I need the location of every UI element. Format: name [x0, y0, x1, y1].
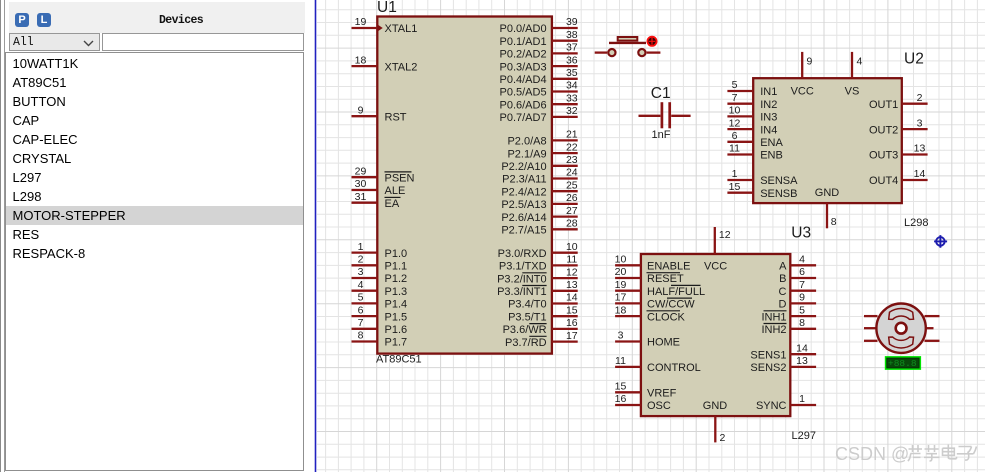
svg-text:14: 14 — [796, 342, 808, 354]
svg-text:13: 13 — [914, 143, 926, 155]
svg-text:1: 1 — [799, 393, 805, 405]
U2 pin 11 (ENB) — [727, 143, 782, 162]
svg-text:31: 31 — [355, 191, 367, 203]
svg-text:P2.7/A15: P2.7/A15 — [501, 225, 546, 237]
U3 pin 14 (SENS1) — [750, 342, 816, 361]
U2 value label L298 — [904, 217, 928, 229]
svg-text:1: 1 — [358, 241, 364, 253]
svg-text:30: 30 — [355, 178, 367, 190]
svg-text:18: 18 — [615, 304, 627, 316]
U1 pin 12 (P3.2/INT0) — [497, 266, 578, 285]
svg-text:P3.2/INT0: P3.2/INT0 — [497, 273, 547, 285]
svg-text:P0.3/AD3: P0.3/AD3 — [500, 61, 547, 73]
U1 pin 3 (P1.2) — [352, 266, 408, 285]
svg-text:PSEN: PSEN — [385, 172, 415, 184]
U1 pin 38 (P0.1/AD1) — [500, 29, 578, 48]
svg-text:GND: GND — [815, 187, 840, 199]
svg-text:P2.2/A10: P2.2/A10 — [501, 161, 546, 173]
U2 reference label — [904, 50, 924, 67]
svg-text:P1.6: P1.6 — [385, 324, 408, 336]
svg-text:26: 26 — [566, 192, 578, 204]
svg-text:P3.0/RXD: P3.0/RXD — [498, 248, 547, 260]
U1 pin 35 (P0.4/AD4) — [500, 67, 578, 86]
U1 pin 26 (P2.5/A13) — [501, 192, 577, 211]
svg-text:HOME: HOME — [647, 337, 680, 349]
U3 pin 12 (VCC) — [704, 227, 731, 273]
U1 pin 23 (P2.2/A10) — [501, 154, 577, 173]
push button: right contact — [638, 49, 645, 56]
svg-text:20: 20 — [615, 266, 627, 278]
svg-text:D: D — [779, 299, 787, 311]
svg-text:P0.5/AD5: P0.5/AD5 — [500, 87, 547, 99]
U1 pin 1 (P1.0) — [352, 241, 408, 260]
svg-text:P2.1/A9: P2.1/A9 — [507, 148, 546, 160]
U3 pin 6 (B) — [779, 266, 816, 285]
svg-text:ALE: ALE — [385, 185, 406, 197]
svg-text:P3.6/WR: P3.6/WR — [503, 324, 547, 336]
U3 pin 1 (SYNC) — [756, 393, 816, 412]
svg-text:12: 12 — [566, 266, 578, 278]
push button: left wire — [595, 51, 608, 53]
svg-text:HALF/FULL: HALF/FULL — [647, 286, 705, 298]
stepper motor: lead wires left — [864, 316, 878, 341]
svg-text:5: 5 — [358, 292, 364, 304]
svg-text:RST: RST — [385, 111, 407, 123]
svg-text:P3.5/T1: P3.5/T1 — [508, 311, 547, 323]
svg-text:SYNC: SYNC — [756, 400, 787, 412]
svg-text:7: 7 — [358, 317, 364, 329]
svg-text:37: 37 — [566, 42, 578, 54]
svg-text:XTAL2: XTAL2 — [385, 61, 418, 73]
svg-text:12: 12 — [719, 229, 731, 241]
svg-text:IN1: IN1 — [760, 86, 777, 98]
U2 pin 9 (VCC) — [791, 52, 814, 98]
svg-text:18: 18 — [355, 54, 367, 66]
svg-text:L297: L297 — [792, 430, 816, 442]
capacitor C1: left wire — [639, 115, 661, 117]
svg-text:VREF: VREF — [647, 388, 677, 400]
svg-text:38: 38 — [566, 29, 578, 41]
U1 pin 32 (P0.7/AD7) — [500, 105, 578, 124]
svg-text:P1.2: P1.2 — [385, 273, 408, 285]
U2 pin 14 (OUT4) — [869, 168, 928, 187]
svg-text:L298: L298 — [904, 217, 928, 229]
push button: actuator bar and cap — [609, 37, 646, 43]
stepper motor: body — [876, 304, 925, 353]
svg-text:9: 9 — [807, 56, 813, 68]
svg-text:P0.7/AD7: P0.7/AD7 — [500, 112, 547, 124]
svg-text:CONTROL: CONTROL — [647, 362, 701, 374]
U2 pin 13 (OUT3) — [869, 143, 928, 162]
svg-text:EA: EA — [385, 198, 400, 210]
svg-text:VCC: VCC — [704, 261, 727, 273]
svg-text:16: 16 — [615, 393, 627, 405]
svg-text:7: 7 — [732, 92, 738, 104]
svg-text:VS: VS — [845, 85, 860, 97]
svg-text:8: 8 — [831, 216, 837, 228]
svg-text:15: 15 — [566, 304, 578, 316]
motor angle display +88.8 — [886, 357, 920, 369]
svg-text:+88.8: +88.8 — [888, 358, 917, 369]
svg-text:CSDN @: CSDN @ — [835, 444, 909, 464]
svg-text:4: 4 — [358, 279, 364, 291]
U2 pin 1 (SENSA) — [727, 168, 798, 187]
U1 pin 29 (PSEN) — [352, 165, 415, 184]
U1 pin 16 (P3.6/WR) — [503, 317, 578, 336]
svg-text:17: 17 — [615, 292, 627, 304]
svg-text:P1.0: P1.0 — [385, 248, 408, 260]
svg-text:10: 10 — [615, 254, 627, 266]
U1 pin 25 (P2.4/A12) — [501, 179, 577, 198]
svg-text:4: 4 — [799, 254, 805, 266]
U2 pin 7 (IN2) — [727, 92, 777, 111]
watermark CSDN @芦苇电子 — [835, 444, 977, 464]
U1 pin 11 (P3.1/TXD) — [499, 254, 578, 273]
U1 pin 6 (P1.5) — [352, 304, 408, 323]
svg-text:P3.3/INT1: P3.3/INT1 — [497, 286, 547, 298]
svg-text:P1.7: P1.7 — [385, 337, 408, 349]
U2 pin 2 (OUT1) — [869, 92, 928, 111]
U1 pin 2 (P1.1) — [352, 254, 408, 273]
U3 pin 13 (SENS2) — [750, 355, 816, 374]
svg-text:CLOCK: CLOCK — [647, 311, 686, 323]
svg-text:22: 22 — [566, 141, 578, 153]
svg-text:P2.0/A8: P2.0/A8 — [507, 136, 546, 148]
svg-text:P2.3/A11: P2.3/A11 — [502, 174, 546, 186]
svg-text:C1: C1 — [651, 85, 671, 102]
svg-text:32: 32 — [566, 105, 578, 117]
U1 pin 36 (P0.3/AD3) — [500, 54, 578, 73]
svg-text:OUT2: OUT2 — [869, 124, 898, 136]
C1 reference label — [651, 85, 671, 102]
U1 pin 19 (XTAL1) — [352, 16, 418, 35]
svg-text:P3.7/RD: P3.7/RD — [505, 337, 547, 349]
U1 pin 18 (XTAL2) — [352, 54, 418, 73]
svg-text:13: 13 — [796, 355, 808, 367]
svg-text:15: 15 — [615, 381, 627, 393]
svg-text:36: 36 — [566, 54, 578, 66]
svg-text:GND: GND — [703, 400, 728, 412]
svg-text:11: 11 — [615, 355, 626, 367]
svg-text:P1.5: P1.5 — [385, 311, 408, 323]
U2 pin 4 (VS) — [845, 52, 863, 98]
svg-text:24: 24 — [566, 167, 578, 179]
U2 pin 6 (ENA) — [727, 130, 783, 149]
svg-text:5: 5 — [732, 79, 738, 91]
svg-text:A: A — [779, 261, 787, 273]
U2 pin 12 (IN4) — [727, 117, 777, 136]
svg-text:29: 29 — [355, 165, 367, 177]
capacitor C1: right wire — [671, 115, 690, 117]
U3 pin 18 (CLOCK) — [615, 304, 686, 323]
svg-text:1nF: 1nF — [652, 129, 671, 141]
svg-text:13: 13 — [566, 279, 578, 291]
U3 pin 16 (OSC) — [615, 393, 671, 412]
svg-text:5: 5 — [799, 304, 805, 316]
U1 pin 28 (P2.7/A15) — [501, 218, 577, 237]
svg-text:10: 10 — [566, 241, 578, 253]
svg-text:P1.3: P1.3 — [385, 286, 408, 298]
U3 pin 9 (D) — [779, 292, 817, 311]
svg-text:ENABLE: ENABLE — [647, 261, 690, 273]
svg-text:AT89C51: AT89C51 — [376, 354, 422, 366]
svg-text:17: 17 — [566, 330, 578, 342]
U1 pin 17 (P3.7/RD) — [505, 330, 578, 349]
U1 pin 31 (EA) — [352, 191, 401, 210]
svg-text:U3: U3 — [791, 225, 811, 242]
svg-text:B: B — [779, 273, 786, 285]
svg-text:P2.5/A13: P2.5/A13 — [501, 199, 546, 211]
svg-text:15: 15 — [729, 181, 741, 193]
svg-text:P2.6/A14: P2.6/A14 — [501, 212, 546, 224]
U1 pin 8 (P1.7) — [352, 330, 408, 349]
svg-text:16: 16 — [566, 317, 578, 329]
svg-text:CW/CCW: CW/CCW — [647, 299, 695, 311]
U3 pin 7 (C) — [779, 279, 817, 298]
U2 pin 15 (SENSB) — [727, 181, 797, 200]
svg-text:4: 4 — [857, 56, 863, 68]
svg-text:1: 1 — [732, 168, 738, 180]
svg-text:U1: U1 — [377, 0, 397, 16]
svg-text:2: 2 — [720, 432, 726, 444]
U3 pin 3 (HOME) — [615, 330, 680, 349]
svg-text:P0.0/AD0: P0.0/AD0 — [500, 23, 547, 35]
U2 pin 8 (GND) — [815, 187, 840, 228]
mouse cursor crosshair — [934, 235, 947, 248]
U1 pin 13 (P3.3/INT1) — [497, 279, 578, 298]
svg-text:IN4: IN4 — [760, 124, 777, 136]
U1 pin 34 (P0.5/AD5) — [500, 80, 578, 99]
U1 pin 39 (P0.0/AD0) — [500, 16, 578, 35]
U1 pin 4 (P1.3) — [352, 279, 408, 298]
svg-text:28: 28 — [566, 218, 578, 230]
svg-text:25: 25 — [566, 179, 578, 191]
push button: right wire — [647, 51, 661, 53]
svg-text:8: 8 — [358, 330, 364, 342]
svg-text:8: 8 — [799, 317, 805, 329]
capacitor C1: plates — [662, 102, 670, 128]
svg-text:SENS1: SENS1 — [750, 349, 786, 361]
U3 pin 8 (INH2) — [761, 317, 816, 336]
svg-text:SENS2: SENS2 — [750, 362, 786, 374]
U1 pin 22 (P2.1/A9) — [507, 141, 577, 160]
U3 pin 10 (ENABLE) — [615, 254, 691, 273]
svg-text:3: 3 — [917, 117, 923, 129]
svg-text:IN3: IN3 — [760, 112, 777, 124]
svg-text:35: 35 — [566, 67, 578, 79]
U1 pin 14 (P3.4/T0) — [508, 292, 578, 311]
U1 pin 24 (P2.3/A11) — [502, 167, 578, 186]
svg-text:3: 3 — [618, 330, 624, 342]
svg-text:P1.4: P1.4 — [385, 299, 408, 311]
svg-text:P2.4/A12: P2.4/A12 — [501, 186, 546, 198]
svg-text:C: C — [779, 286, 787, 298]
U1 value label AT89C51 — [376, 354, 422, 366]
U1 pin 7 (P1.6) — [352, 317, 408, 336]
svg-text:VCC: VCC — [791, 85, 814, 97]
U2 pin 3 (OUT2) — [869, 117, 928, 136]
svg-text:19: 19 — [355, 16, 367, 28]
U1 pin 27 (P2.6/A14) — [501, 205, 577, 224]
svg-text:11: 11 — [729, 143, 740, 155]
svg-text:7: 7 — [799, 279, 805, 291]
svg-text:9: 9 — [799, 292, 805, 304]
svg-text:34: 34 — [566, 80, 578, 92]
U3 pin 11 (CONTROL) — [615, 355, 701, 374]
U3 pin 4 (A) — [779, 254, 816, 273]
svg-text:21: 21 — [566, 129, 578, 141]
U3 reference label — [791, 225, 811, 242]
U1 pin 37 (P0.2/AD2) — [500, 42, 578, 61]
svg-text:OUT1: OUT1 — [869, 99, 898, 111]
U1 pin 33 (P0.6/AD6) — [500, 92, 578, 111]
svg-text:XTAL1: XTAL1 — [385, 23, 418, 35]
svg-text:P1.1: P1.1 — [385, 261, 408, 273]
svg-text:OSC: OSC — [647, 400, 671, 412]
svg-text:2: 2 — [917, 92, 923, 104]
svg-text:39: 39 — [566, 16, 578, 28]
svg-text:6: 6 — [732, 130, 738, 142]
U1 pin 5 (P1.4) — [352, 292, 408, 311]
svg-text:U2: U2 — [904, 50, 924, 67]
U1 pin 21 (P2.0/A8) — [507, 129, 577, 148]
U3 pin 2 (GND) — [703, 400, 728, 444]
svg-text:12: 12 — [729, 117, 741, 129]
U3 pin 15 (VREF) — [615, 381, 677, 400]
svg-text:6: 6 — [799, 266, 805, 278]
svg-text:23: 23 — [566, 154, 578, 166]
svg-text:19: 19 — [615, 279, 627, 291]
svg-text:OUT3: OUT3 — [869, 150, 898, 162]
svg-text:P0.6/AD6: P0.6/AD6 — [500, 99, 547, 111]
svg-text:9: 9 — [358, 104, 364, 116]
svg-text:33: 33 — [566, 92, 578, 104]
svg-text:14: 14 — [914, 168, 926, 180]
IC U1 AT89C51 body — [377, 17, 552, 354]
U3 pin 17 (CW/CCW) — [615, 292, 696, 311]
push button: interactive toggle marker — [647, 37, 656, 46]
svg-text:IN2: IN2 — [760, 99, 777, 111]
svg-text:ENB: ENB — [760, 150, 783, 162]
svg-text:INH2: INH2 — [761, 324, 786, 336]
svg-text:11: 11 — [566, 254, 577, 266]
svg-text:27: 27 — [566, 205, 578, 217]
U1 pin 30 (ALE) — [352, 178, 406, 197]
svg-text:P3.1/TXD: P3.1/TXD — [499, 261, 547, 273]
svg-text:RESET: RESET — [647, 273, 684, 285]
svg-text:2: 2 — [358, 254, 364, 266]
C1 value label 1nF — [652, 129, 671, 141]
U3 pin 19 (HALF/FULL) — [615, 279, 705, 298]
svg-text:SENSB: SENSB — [760, 188, 797, 200]
svg-text:P0.2/AD2: P0.2/AD2 — [500, 49, 547, 61]
svg-text:SENSA: SENSA — [760, 175, 798, 187]
U3 pin 5 (INH1) — [761, 304, 816, 323]
U2 pin 10 (IN3) — [727, 105, 777, 124]
svg-text:3: 3 — [358, 266, 364, 278]
U1 pin 9 (RST) — [352, 104, 407, 123]
U3 pin 20 (RESET) — [615, 266, 684, 285]
U2 pin 5 (IN1) — [727, 79, 777, 98]
U1 pin 10 (P3.0/RXD) — [498, 241, 578, 260]
U1 pin 15 (P3.5/T1) — [508, 304, 578, 323]
svg-text:INH1: INH1 — [761, 311, 786, 323]
svg-text:14: 14 — [566, 292, 578, 304]
svg-text:ENA: ENA — [760, 137, 783, 149]
svg-text:OUT4: OUT4 — [869, 175, 898, 187]
push button: left contact — [608, 49, 615, 56]
IC U3 L297 body — [641, 254, 790, 416]
svg-text:10: 10 — [729, 105, 741, 117]
svg-text:P0.1/AD1: P0.1/AD1 — [500, 36, 547, 48]
svg-text:P3.4/T0: P3.4/T0 — [508, 299, 547, 311]
stepper motor: lead wires right — [925, 316, 940, 341]
IC U2 L298 body — [753, 78, 902, 203]
svg-text:P0.4/AD4: P0.4/AD4 — [500, 74, 547, 86]
U1 reference label — [377, 0, 397, 16]
U3 value label L297 — [792, 430, 816, 442]
svg-text:6: 6 — [358, 304, 364, 316]
